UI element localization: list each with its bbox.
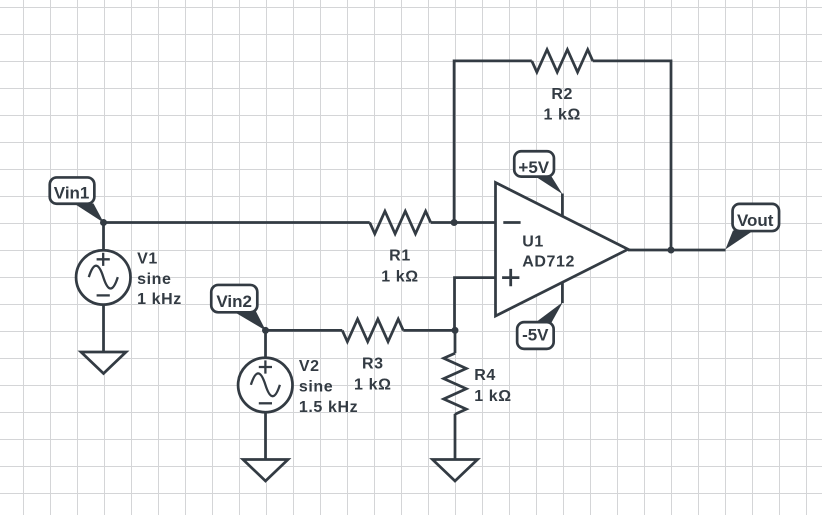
svg-text:-5V: -5V [522,326,549,345]
svg-text:Vin1: Vin1 [54,184,90,203]
svg-text:1 kΩ: 1 kΩ [354,376,391,393]
svg-text:R4: R4 [474,367,496,384]
svg-text:R2: R2 [551,86,573,103]
svg-text:R1: R1 [389,248,411,265]
svg-text:1.5 kHz: 1.5 kHz [299,399,358,416]
svg-text:1 kΩ: 1 kΩ [474,388,511,405]
svg-text:1 kΩ: 1 kΩ [543,107,580,124]
svg-text:V1: V1 [137,250,158,267]
svg-text:R3: R3 [362,356,384,373]
svg-text:Vin2: Vin2 [216,292,252,311]
svg-text:+5V: +5V [518,158,549,177]
svg-text:sine: sine [299,378,333,395]
svg-text:U1: U1 [522,233,544,250]
svg-text:Vout: Vout [737,211,774,230]
svg-text:AD712: AD712 [522,254,575,271]
svg-text:1 kHz: 1 kHz [137,291,182,308]
svg-text:V2: V2 [299,358,320,375]
svg-text:1 kΩ: 1 kΩ [381,268,418,285]
svg-text:sine: sine [137,271,171,288]
